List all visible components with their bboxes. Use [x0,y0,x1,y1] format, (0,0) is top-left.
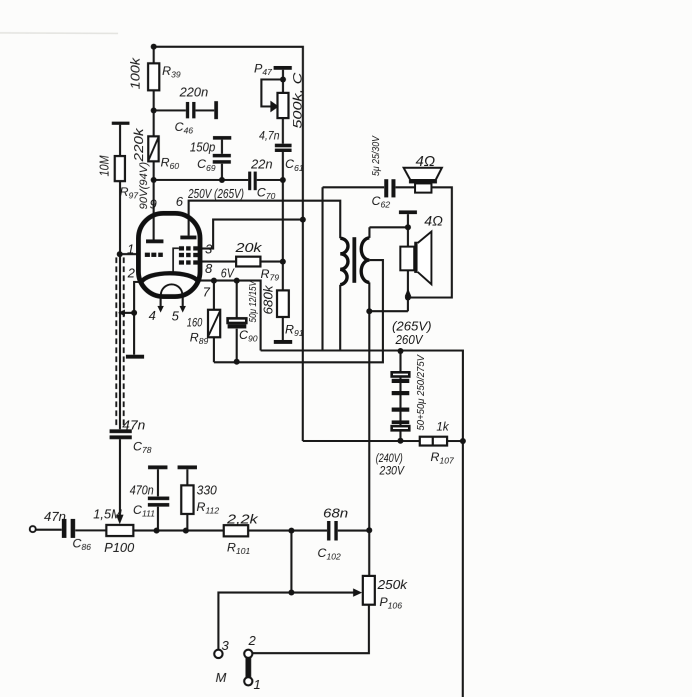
svg-text:7: 7 [203,284,211,299]
svg-text:250k: 250k [376,577,407,592]
svg-text:100k: 100k [128,57,142,89]
svg-text:5μ 25/30V: 5μ 25/30V [371,135,382,176]
svg-text:4,7n: 4,7n [259,128,280,142]
svg-text:47n: 47n [44,510,66,524]
svg-text:220n: 220n [179,84,209,99]
svg-text:20k: 20k [234,240,263,255]
svg-text:4: 4 [149,308,156,323]
svg-text:2: 2 [247,633,256,648]
svg-text:4Ω: 4Ω [424,214,443,229]
svg-text:22n: 22n [250,157,272,172]
svg-text:2: 2 [127,265,136,280]
svg-text:68n: 68n [323,506,348,521]
svg-text:P100: P100 [104,541,134,555]
svg-text:1,5M: 1,5M [93,508,122,522]
svg-text:M: M [215,670,226,685]
svg-text:230V: 230V [379,464,406,478]
svg-text:10M: 10M [97,155,111,176]
svg-text:5: 5 [172,308,180,323]
svg-text:680k: 680k [262,285,276,315]
svg-text:50μ 12/15V: 50μ 12/15V [248,280,259,322]
svg-text:6: 6 [176,194,184,209]
svg-text:90V(94V): 90V(94V) [138,162,150,210]
svg-text:47n: 47n [122,418,145,432]
svg-text:50+50μ 250/275V: 50+50μ 250/275V [416,354,427,430]
svg-text:4Ω: 4Ω [416,154,436,170]
svg-text:260V: 260V [395,333,424,347]
svg-text:3: 3 [205,241,213,256]
svg-text:3: 3 [221,638,229,653]
svg-text:250V (265V): 250V (265V) [187,186,244,201]
svg-text:(265V): (265V) [392,319,432,333]
svg-text:6V: 6V [221,266,235,280]
svg-text:9: 9 [150,196,157,211]
svg-text:1: 1 [253,677,260,692]
svg-text:220k: 220k [132,128,146,163]
svg-text:500k, C: 500k, C [292,72,305,129]
svg-text:2,2k: 2,2k [226,511,259,526]
svg-text:470n: 470n [130,484,154,498]
svg-text:330: 330 [197,484,217,498]
svg-text:150p: 150p [190,140,216,154]
svg-text:1: 1 [127,241,134,256]
svg-text:8: 8 [205,261,213,276]
svg-text:1k: 1k [436,419,449,433]
svg-text:160: 160 [187,315,203,329]
